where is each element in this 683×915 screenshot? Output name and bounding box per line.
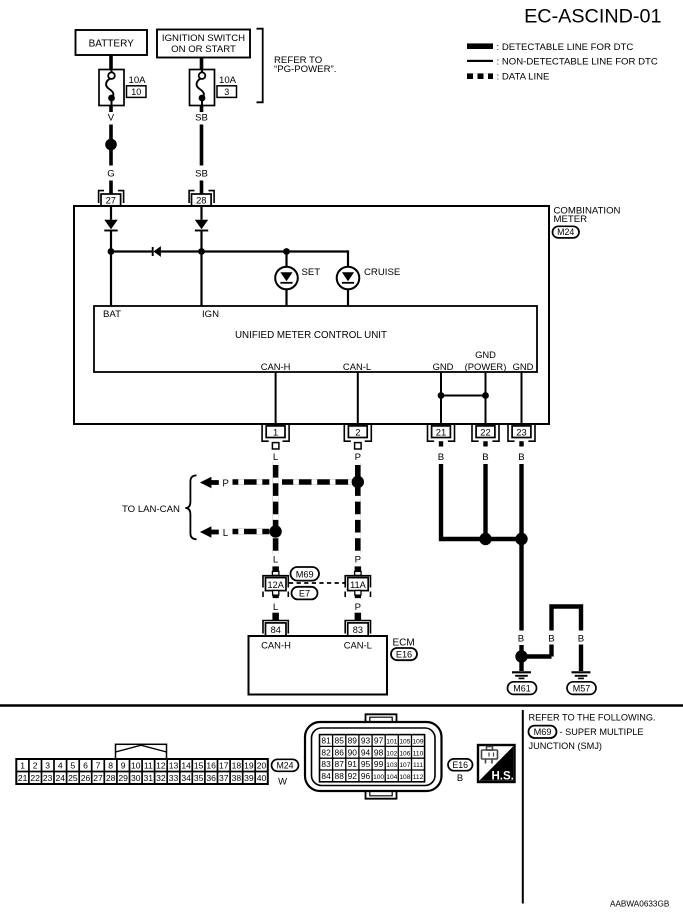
svg-text:8: 8 [108, 761, 113, 771]
svg-text:L: L [273, 555, 279, 566]
wire GND to connector 21 [440, 372, 442, 426]
wire B 23 to ground dot [519, 645, 523, 661]
svg-text:22: 22 [480, 426, 490, 437]
svg-text:21: 21 [18, 773, 28, 783]
pg-power bracket [257, 29, 263, 103]
ECM CAN-H pin label [261, 640, 291, 651]
wire CRUISE lamp to unit [347, 289, 349, 306]
connector id E7 oval [292, 587, 318, 600]
svg-text:109: 109 [412, 739, 423, 746]
wire color L mid [273, 555, 279, 566]
SET label [302, 267, 321, 278]
svg-text:21: 21 [436, 426, 446, 437]
GND POWER pin label [465, 349, 507, 372]
connector 2 tab [355, 443, 362, 449]
svg-text:: DATA LINE: : DATA LINE [497, 71, 550, 82]
svg-text:M69: M69 [296, 570, 314, 580]
svg-text:B: B [482, 452, 488, 463]
junction dot BAT [108, 248, 115, 255]
ECM CAN-L pin label [344, 640, 372, 651]
svg-text:40: 40 [257, 773, 267, 783]
svg-text:B: B [578, 634, 584, 645]
svg-text:CAN-H: CAN-H [261, 640, 291, 651]
CAN-L pin label [343, 361, 371, 372]
svg-text:12: 12 [156, 761, 166, 771]
wire GND POWER to connector 22 [485, 372, 487, 426]
gnd bridge wire [441, 395, 486, 397]
svg-text:3: 3 [45, 761, 50, 771]
svg-text:1: 1 [273, 426, 278, 437]
connector 84 [263, 621, 288, 637]
wire color G [107, 168, 114, 179]
IGN pin label [202, 309, 219, 320]
wire color P lower [355, 602, 361, 613]
wire SB to SB [200, 125, 204, 166]
wire color B left leg label [518, 634, 524, 645]
svg-text:105: 105 [399, 739, 410, 746]
footer M69 oval [529, 726, 557, 738]
svg-text:ON OR START: ON OR START [171, 44, 236, 55]
TO LAN-CAN label [122, 504, 180, 515]
svg-text:EC-ASCIND-01: EC-ASCIND-01 [524, 6, 661, 28]
svg-text:39: 39 [244, 773, 254, 783]
svg-text:V: V [108, 112, 115, 123]
combination meter box [74, 206, 549, 424]
GND right pin label [513, 361, 534, 372]
svg-text:M24: M24 [557, 227, 574, 237]
data line CAN-L vertical [355, 463, 361, 555]
junction dot SET [283, 248, 290, 255]
legend non-detectable line text [497, 57, 658, 68]
ground symbol M61 [512, 672, 531, 678]
svg-text:29: 29 [118, 773, 128, 783]
svg-text:9: 9 [121, 761, 126, 771]
svg-text:GND: GND [475, 349, 496, 360]
svg-text:CAN-H: CAN-H [261, 361, 291, 372]
SET indicator lamp [275, 267, 298, 290]
legend detectable line text [497, 42, 634, 53]
wire diode2 to IGN [200, 231, 202, 307]
svg-text:18: 18 [232, 761, 242, 771]
svg-text:104: 104 [386, 774, 397, 781]
wire color B 21 [438, 452, 444, 463]
svg-text:5: 5 [71, 761, 76, 771]
svg-text:34: 34 [181, 773, 191, 783]
svg-text:10: 10 [131, 87, 141, 97]
svg-text:89: 89 [348, 736, 358, 746]
connector 28 [189, 191, 214, 206]
junction dot ground 23 [515, 533, 527, 545]
smj dashed link [289, 582, 346, 584]
connector 1 tab [272, 443, 279, 449]
svg-text:85: 85 [335, 736, 345, 746]
footer divider vertical line [522, 710, 524, 904]
CRUISE indicator lamp [337, 267, 360, 290]
wire B 23 down [519, 464, 523, 631]
fuse 10A label 2 [219, 75, 237, 86]
svg-text:B: B [438, 452, 444, 463]
super multiple junction text [529, 727, 644, 751]
data line P horizontal to LAN left [233, 479, 270, 485]
connector 22 [472, 425, 499, 441]
data tab above 11A [355, 566, 362, 575]
ECM box [249, 636, 388, 695]
wire fuse2 to SB [200, 106, 204, 113]
svg-text:92: 92 [348, 771, 358, 781]
svg-text:CAN-L: CAN-L [344, 640, 372, 651]
junction dot IGN [198, 248, 205, 255]
wire ignition to fuse [200, 58, 204, 70]
svg-text:E16: E16 [396, 650, 412, 660]
svg-text:84: 84 [271, 625, 281, 635]
svg-text:110: 110 [413, 750, 424, 757]
svg-text:27: 27 [93, 773, 103, 783]
M24 connector key tab [116, 744, 167, 759]
svg-text:83: 83 [321, 759, 331, 769]
svg-text:28: 28 [106, 773, 116, 783]
junction dot ground 22 [479, 533, 491, 545]
svg-text:11A: 11A [350, 580, 367, 590]
svg-text:7: 7 [96, 761, 101, 771]
svg-text:101: 101 [386, 739, 397, 746]
svg-text:23: 23 [43, 773, 53, 783]
svg-text:30: 30 [131, 773, 141, 783]
svg-text:(POWER): (POWER) [465, 361, 507, 372]
svg-text:13: 13 [169, 761, 179, 771]
svg-text:M69: M69 [534, 727, 552, 737]
gnd bridge junction dot right [482, 392, 489, 399]
svg-text:37: 37 [219, 773, 229, 783]
svg-text:88: 88 [335, 771, 345, 781]
E16 connector shell outer [305, 722, 442, 791]
svg-text:106: 106 [399, 750, 410, 757]
svg-text:IGNITION SWITCH: IGNITION SWITCH [162, 33, 245, 44]
wire color L [273, 452, 279, 463]
junction dot P data [352, 476, 364, 488]
svg-text:H.S.: H.S. [492, 771, 514, 783]
svg-text:2: 2 [33, 761, 38, 771]
wire battery to fuse [109, 55, 113, 70]
svg-text:108: 108 [399, 774, 410, 781]
svg-text:96: 96 [361, 771, 371, 781]
wire to SET lamp [285, 252, 287, 268]
connector 12A [263, 576, 288, 597]
svg-text:83: 83 [353, 625, 363, 635]
arrow P label [222, 479, 229, 490]
svg-text:B: B [518, 634, 524, 645]
fuse 10A label [129, 75, 147, 86]
svg-text:B: B [548, 634, 554, 645]
svg-text:“PG-POWER”.: “PG-POWER”. [274, 64, 336, 75]
wire SB to connector 28 [200, 181, 204, 195]
connector 2 [344, 425, 371, 441]
svg-text:33: 33 [169, 773, 179, 783]
footer E16 oval [448, 759, 473, 771]
svg-text:25: 25 [68, 773, 78, 783]
ground junction dot [515, 650, 527, 662]
unified meter control unit label [235, 330, 387, 341]
svg-text:L: L [273, 602, 279, 613]
svg-text:GND: GND [433, 361, 454, 372]
svg-text:: NON-DETECTABLE LINE FOR DTC: : NON-DETECTABLE LINE FOR DTC [497, 57, 658, 68]
legend non-detectable line symbol [467, 60, 493, 62]
connector 23 [508, 425, 535, 441]
wire color SB lower [195, 168, 208, 179]
wire color V [108, 112, 115, 123]
arrow to LAN-CAN P [200, 477, 219, 488]
junction dot battery wire [105, 139, 117, 151]
combination meter label [554, 206, 621, 226]
svg-text:91: 91 [348, 759, 358, 769]
svg-text:36: 36 [206, 773, 216, 783]
svg-text:86: 86 [335, 747, 345, 757]
ground id M61 oval [508, 682, 537, 695]
tab below 11A [355, 591, 361, 599]
svg-text:M61: M61 [513, 684, 531, 694]
svg-text:E16: E16 [452, 760, 468, 770]
fuse number 3 box [217, 86, 237, 98]
refer to the following text [529, 712, 656, 722]
wire color B 23 [518, 452, 524, 463]
footer M24 oval [272, 759, 299, 771]
svg-text:10A: 10A [129, 75, 147, 86]
connector 22 tab [483, 441, 487, 446]
svg-text:38: 38 [232, 773, 242, 783]
CAN-H pin label [261, 361, 291, 372]
arrow to LAN-CAN L [200, 526, 219, 537]
svg-text:100: 100 [373, 774, 384, 781]
brace to LAN-CAN [185, 475, 196, 539]
connector 21 [428, 425, 455, 441]
diode D3 (left) [153, 246, 161, 257]
svg-text:95: 95 [361, 759, 371, 769]
svg-text:6: 6 [83, 761, 88, 771]
svg-text:81: 81 [321, 736, 331, 746]
connector id E16 oval [391, 648, 417, 660]
M24 wire color W [278, 775, 287, 786]
svg-text:87: 87 [335, 759, 345, 769]
wire color P mid [355, 555, 361, 566]
wire B branch right to ground [579, 645, 583, 672]
bus wire BAT to diode D3 [111, 250, 153, 252]
refer to pg-power text [274, 55, 336, 75]
wire B 22 down [483, 464, 487, 539]
connector 27 [99, 191, 124, 206]
svg-text:32: 32 [156, 773, 166, 783]
svg-text:10: 10 [131, 761, 141, 771]
svg-text:112: 112 [413, 774, 424, 781]
connector 83 [345, 621, 370, 637]
svg-text:103: 103 [386, 762, 397, 769]
data line P horizontal to LAN right [282, 479, 358, 485]
connector id M69 oval [291, 567, 320, 581]
data line L horizontal to LAN [233, 529, 270, 535]
ECM label [393, 638, 415, 649]
svg-text:METER: METER [554, 214, 588, 225]
svg-text:BAT: BAT [103, 309, 121, 320]
data tab above 12A [272, 566, 279, 575]
svg-text:P: P [355, 555, 361, 566]
svg-text:IGN: IGN [202, 309, 219, 320]
tab above 84 [272, 613, 279, 621]
wire color P [355, 452, 361, 463]
connector 1 [262, 425, 289, 441]
svg-text:26: 26 [81, 773, 91, 783]
svg-text:2: 2 [355, 426, 360, 437]
svg-text:P: P [222, 479, 229, 490]
svg-text:20: 20 [257, 761, 267, 771]
svg-text:90: 90 [348, 747, 358, 757]
svg-text:B: B [457, 772, 463, 783]
svg-text:ECM: ECM [393, 638, 415, 649]
svg-text:G: G [107, 168, 114, 179]
svg-text:14: 14 [181, 761, 191, 771]
svg-text:AABWA0633GB: AABWA0633GB [610, 900, 670, 909]
svg-text:11: 11 [144, 761, 153, 771]
E16 connector top tab [366, 714, 397, 721]
wire diode1 to junction [110, 231, 112, 307]
svg-text:REFER TO THE FOLLOWING.: REFER TO THE FOLLOWING. [529, 712, 656, 722]
wire V to G with junction [109, 125, 113, 166]
svg-text:12A: 12A [268, 580, 285, 590]
svg-text:CRUISE: CRUISE [364, 267, 400, 278]
ground link wire [522, 654, 552, 658]
svg-text:28: 28 [196, 195, 206, 206]
svg-text:UNIFIED METER CONTROL UNIT: UNIFIED METER CONTROL UNIT [235, 330, 387, 341]
connector 11A [345, 576, 370, 597]
svg-text:L: L [223, 528, 229, 539]
connector id M24 oval [553, 226, 580, 238]
ground symbol M57 [572, 672, 591, 678]
svg-text:97: 97 [374, 736, 384, 746]
svg-text:CAN-L: CAN-L [343, 361, 371, 372]
bus wire diode D3 to cruise column [161, 250, 348, 252]
svg-text:BATTERY: BATTERY [89, 39, 135, 50]
svg-text:3: 3 [224, 87, 229, 97]
arrow L label [223, 528, 229, 539]
wire 28 to diode [200, 206, 202, 220]
wire B 21 down [441, 464, 519, 539]
svg-text:84: 84 [321, 771, 331, 781]
svg-text:31: 31 [144, 773, 154, 783]
image code AABWA0633GB [610, 900, 670, 909]
svg-text:W: W [278, 775, 287, 786]
svg-text:17: 17 [219, 761, 229, 771]
svg-text:10A: 10A [219, 75, 237, 86]
svg-text:99: 99 [374, 759, 384, 769]
svg-text:M24: M24 [276, 761, 293, 771]
svg-text:P: P [355, 452, 361, 463]
legend data line symbol [467, 73, 493, 79]
E16 connector bottom tab [366, 792, 397, 799]
svg-text:GND: GND [513, 361, 534, 372]
ground id M57 oval [567, 682, 596, 695]
svg-text:: DETECTABLE LINE FOR DTC: : DETECTABLE LINE FOR DTC [497, 42, 634, 53]
CRUISE label [364, 267, 400, 278]
svg-text:E7: E7 [299, 589, 310, 599]
svg-text:SB: SB [195, 168, 208, 179]
tab below 12A [273, 591, 279, 599]
svg-text:24: 24 [56, 773, 66, 783]
wire CAN-L to connector 2 [357, 372, 359, 426]
svg-text:19: 19 [244, 761, 254, 771]
wire B branch left lower [549, 645, 553, 657]
GND pin label [433, 361, 454, 372]
bottom separator line [0, 704, 683, 706]
wire CAN-H to connector 1 [275, 372, 277, 426]
svg-text:L: L [273, 452, 279, 463]
wire color SB upper [195, 112, 208, 123]
BAT pin label [103, 309, 121, 320]
svg-text:B: B [518, 452, 524, 463]
wire color L lower [273, 602, 279, 613]
H.S. icon [478, 745, 515, 783]
svg-text:TO LAN-CAN: TO LAN-CAN [122, 504, 180, 515]
svg-text:111: 111 [413, 762, 423, 769]
svg-text:SET: SET [302, 267, 321, 278]
svg-text:1: 1 [20, 761, 25, 771]
svg-text:M57: M57 [573, 684, 591, 694]
wire color B 22 [482, 452, 488, 463]
svg-text:16: 16 [206, 761, 216, 771]
ground branch top [552, 607, 582, 631]
legend data line text [497, 71, 550, 82]
wire SET lamp to unit [285, 289, 287, 306]
tab above 83 [355, 613, 362, 621]
svg-text:93: 93 [361, 736, 371, 746]
wire dot to ground M61 [519, 657, 523, 672]
diode D1 (down) [104, 220, 117, 231]
svg-text:P: P [355, 602, 361, 613]
connector E16 pin grid [320, 735, 425, 782]
title EC-ASCIND-01 [524, 6, 661, 28]
diode D2 (down) [195, 220, 208, 231]
svg-text:98: 98 [374, 747, 384, 757]
wire color B branch right [578, 634, 584, 645]
wire color B branch left [548, 634, 554, 645]
svg-text:35: 35 [194, 773, 204, 783]
junction dot L data [269, 525, 281, 537]
svg-text:27: 27 [106, 195, 116, 206]
svg-text:- SUPER MULTIPLE: - SUPER MULTIPLE [560, 727, 644, 737]
fuse 10A (3) [190, 70, 215, 106]
svg-text:JUNCTION (SMJ): JUNCTION (SMJ) [529, 741, 603, 751]
svg-text:22: 22 [30, 773, 40, 783]
svg-text:107: 107 [399, 762, 410, 769]
connector 23 tab [519, 441, 523, 446]
svg-text:15: 15 [194, 761, 204, 771]
battery box [76, 30, 148, 55]
wire 27 to diode [110, 206, 112, 220]
legend detectable line symbol [467, 43, 493, 49]
svg-text:94: 94 [361, 747, 371, 757]
connector M24 pin grid [16, 759, 267, 784]
gnd bridge junction dot left [438, 392, 445, 399]
ignition switch box [157, 30, 250, 58]
fuse 10A (10) [99, 70, 124, 106]
svg-text:23: 23 [516, 426, 526, 437]
connector 21 tab [439, 441, 443, 446]
fuse number 10 box [127, 86, 147, 98]
wire G to connector 27 [109, 181, 113, 195]
data line CAN-H vertical [273, 463, 279, 555]
wire fuse to V [109, 106, 113, 113]
unified meter control unit box [94, 306, 537, 372]
svg-text:102: 102 [386, 750, 397, 757]
E16 wire color B [457, 772, 463, 783]
svg-text:SB: SB [195, 112, 208, 123]
wire GND right to connector 23 [521, 372, 523, 426]
